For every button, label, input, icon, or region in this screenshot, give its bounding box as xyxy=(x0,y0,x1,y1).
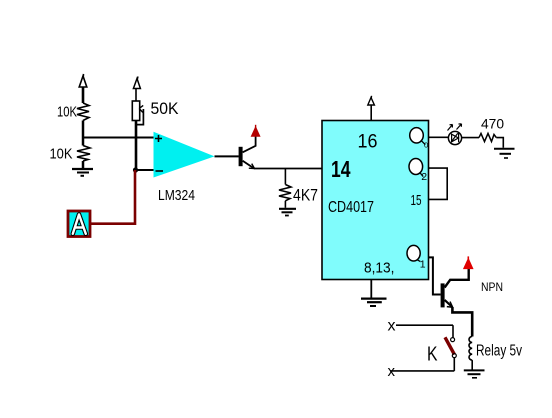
svg-text:10K: 10K xyxy=(50,146,73,163)
svg-text:16: 16 xyxy=(358,131,378,153)
svg-text:CD4017: CD4017 xyxy=(328,199,374,216)
svg-text:K: K xyxy=(427,344,438,366)
svg-text:NPN: NPN xyxy=(481,280,503,294)
svg-text:x: x xyxy=(388,363,396,380)
svg-text:470: 470 xyxy=(481,117,504,132)
svg-text:10K: 10K xyxy=(57,104,77,121)
svg-text:4K7: 4K7 xyxy=(293,186,318,205)
svg-text:0: 0 xyxy=(424,141,428,150)
svg-text:8,13,: 8,13, xyxy=(364,260,395,277)
svg-text:Relay 5v: Relay 5v xyxy=(476,343,522,360)
svg-text:14: 14 xyxy=(331,156,351,182)
svg-text:LM324: LM324 xyxy=(158,187,195,204)
svg-text:15: 15 xyxy=(411,192,422,209)
svg-text:1: 1 xyxy=(420,259,426,271)
svg-text:x: x xyxy=(388,318,396,335)
svg-text:50K: 50K xyxy=(151,100,179,118)
svg-text:2: 2 xyxy=(421,171,427,183)
